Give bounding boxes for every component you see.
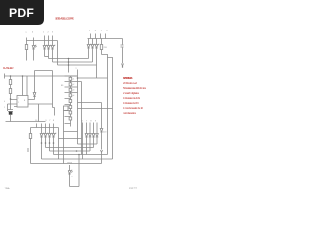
svg-text:1 2 3: 1 2 3 <box>43 32 54 34</box>
svg-text:microfaradios: microfaradios <box>123 111 137 115</box>
resistor R2 <box>101 39 103 55</box>
svg-text:p2: p2 <box>73 84 75 86</box>
wire rail y77.5 and vertical x107 <box>78 58 108 155</box>
wire group3 right drop <box>58 128 60 160</box>
wire bus group3 <box>31 127 59 129</box>
LED D8 <box>40 128 44 144</box>
wire pin link <box>70 105 72 106</box>
wire TM26 loop <box>70 155 80 187</box>
svg-text:page 1/1: page 1/1 <box>129 188 138 190</box>
wire bottom rail y163 <box>31 163 102 165</box>
wire group1 pin stubs <box>27 36 53 41</box>
wire D17 to rail with arrow <box>101 137 103 164</box>
svg-text:8 7 8 9: 8 7 8 9 <box>82 121 97 123</box>
LED D10 <box>48 128 52 144</box>
LED D13 <box>89 134 92 152</box>
wire bus group1 <box>27 40 58 42</box>
diode D17 with feed wire <box>78 103 103 137</box>
junction D11 <box>53 142 55 144</box>
svg-text:2: 2 <box>4 107 5 109</box>
ground rail <box>6 121 46 123</box>
wire 555 supply drops <box>23 76 28 96</box>
svg-text:2: 2 <box>18 102 19 104</box>
svg-text:TM26: TM26 <box>67 163 73 165</box>
junction rail y77.5 <box>77 77 79 79</box>
junction node A1 <box>68 58 70 60</box>
junction y150.5 <box>76 150 78 152</box>
junction node A3 <box>68 64 70 66</box>
connector pin P5 <box>69 100 72 103</box>
svg-text:2 switch digitales: 2 switch digitales <box>123 91 140 95</box>
switch S1 <box>121 39 124 64</box>
connector pin P6 <box>69 106 72 109</box>
resistor R1 <box>26 41 28 61</box>
svg-text:a b: a b <box>26 32 34 34</box>
wire R2 to vertical x112 <box>102 55 113 160</box>
LED D6 <box>91 39 95 63</box>
svg-text:1 4 1 0: 1 4 1 0 <box>89 30 108 32</box>
svg-text:B: B <box>24 100 26 102</box>
svg-text:FLASHER: FLASHER <box>3 66 14 70</box>
svg-text:220: 220 <box>104 47 108 49</box>
LED D15 <box>96 134 99 145</box>
wire group2 pin stubs <box>91 34 106 39</box>
LED D7 <box>95 39 99 66</box>
wire D2 to node A <box>45 56 49 58</box>
LED D5 <box>87 39 91 59</box>
LED D12 <box>85 134 88 155</box>
svg-text:MATERIALES: MATERIALES <box>123 76 133 80</box>
resistor R4 <box>10 76 12 110</box>
connector pin P2 <box>69 83 72 86</box>
svg-text:=: = <box>72 176 73 178</box>
wire row y116 <box>65 114 71 117</box>
wire rail y58 <box>49 58 89 60</box>
wire group1 feed down <box>58 41 69 73</box>
capacitor C1 <box>8 110 13 112</box>
svg-text:20 Diodos Led: 20 Diodos Led <box>123 81 138 85</box>
junction R4 top <box>10 75 12 77</box>
wire column left bracket <box>64 111 78 164</box>
svg-text:1 Condensador de 10: 1 Condensador de 10 <box>123 106 144 110</box>
arrow terminal <box>122 64 124 67</box>
LED D1 <box>32 41 36 61</box>
svg-text:TINA: TINA <box>5 187 11 190</box>
svg-text:6: 6 <box>4 101 5 103</box>
connector pin P1 <box>69 77 72 80</box>
terminal tick <box>27 148 29 152</box>
wire rail y108 <box>78 108 113 110</box>
resistor R5 <box>9 89 11 94</box>
timer IC U1 555 <box>17 96 28 108</box>
wire column rows <box>65 76 78 93</box>
diode D16 <box>33 71 36 100</box>
LED D2 <box>43 41 47 57</box>
wire x96 drop <box>96 65 98 78</box>
connector pin P4 <box>69 94 72 97</box>
svg-text:p1: p1 <box>73 79 75 81</box>
junction node A2 <box>68 61 70 63</box>
wire column pin links <box>70 76 72 99</box>
terminal dot S1 <box>122 66 123 67</box>
wire U1 right pins <box>28 100 53 122</box>
junction U1 pin7 <box>10 98 12 100</box>
svg-text:220: 220 <box>103 132 107 134</box>
LED D3 <box>47 41 51 59</box>
LED D4 <box>51 41 55 63</box>
wire rail y64.5 <box>58 64 97 66</box>
wire rail y61.5 <box>53 61 93 63</box>
wire link y154 <box>54 144 108 155</box>
connector pin P7 <box>69 111 72 114</box>
connector pin P8 <box>69 117 72 120</box>
junction D10 <box>49 142 51 144</box>
LED D18 <box>68 165 72 174</box>
connector pin P3 <box>69 88 72 91</box>
junction D9 <box>45 142 47 144</box>
wire link y147 <box>46 144 94 148</box>
switch S2 box <box>64 106 69 111</box>
wire connector column right rail <box>77 70 79 145</box>
wire flasher output y70 <box>35 71 55 116</box>
svg-text:1 Resistencia 5 K: 1 Resistencia 5 K <box>123 101 139 105</box>
svg-text:5 Resistencias 220 ohmios: 5 Resistencias 220 ohmios <box>123 86 147 90</box>
svg-text:SISTEMA DE LUCES PPE: SISTEMA DE LUCES PPE <box>55 17 74 21</box>
LED D11 <box>52 128 56 144</box>
svg-text:1 Resistencia 4.6k: 1 Resistencia 4.6k <box>123 96 141 100</box>
wire row y98 <box>65 99 71 100</box>
resistor R3 <box>30 128 32 164</box>
svg-text:p3: p3 <box>73 90 75 92</box>
junction supply <box>22 75 24 77</box>
wire bus group2 <box>88 38 123 40</box>
junction D8 <box>41 142 43 144</box>
wire D18 down <box>69 174 71 187</box>
wire row y123 <box>65 120 71 127</box>
LED D14 <box>92 134 95 148</box>
svg-text:a: a <box>76 68 78 70</box>
wire U1 left pins <box>8 100 18 112</box>
wire group3 pin stubs <box>37 124 54 128</box>
wire supply rail y75.5 with terminal <box>5 74 78 79</box>
wire group4 pin stubs <box>83 123 98 160</box>
PDF badge <box>0 0 44 25</box>
svg-text:B1: B1 <box>61 85 64 87</box>
LED D9 <box>44 128 48 144</box>
wire link y150.5 <box>50 144 91 152</box>
svg-text:7: 7 <box>18 98 19 100</box>
svg-text:9 7 8: 9 7 8 <box>46 120 55 122</box>
wire branch x81 <box>78 82 82 155</box>
wire row y138 <box>59 138 82 140</box>
wire row y104 <box>65 103 71 105</box>
wire C1 to ground <box>10 115 12 122</box>
junction TM26 <box>78 154 80 156</box>
wire link y143.5 <box>78 143 98 145</box>
materials list MATERIALES <box>123 76 147 115</box>
wire row y110 <box>65 109 71 111</box>
wire link y158.5 <box>42 144 113 160</box>
svg-text:PDF: PDF <box>9 6 34 20</box>
svg-text:p4: p4 <box>73 95 75 97</box>
